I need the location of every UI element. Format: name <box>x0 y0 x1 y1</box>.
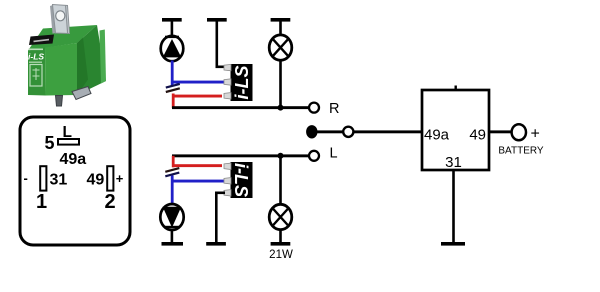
svg-text:49: 49 <box>87 172 105 189</box>
svg-text:R: R <box>329 101 339 117</box>
svg-text:i-LS: i-LS <box>28 52 44 62</box>
flasher box 2 <box>231 162 253 198</box>
relay right face edge highlight <box>100 30 107 84</box>
indicator arrow lamp down <box>160 204 183 230</box>
svg-text:49: 49 <box>469 127 486 144</box>
bus R wire <box>172 106 309 109</box>
flasher box 1 pin bottom <box>224 93 231 99</box>
blue wire switch 1 to flasher box 1 <box>172 81 224 84</box>
svg-text:21W: 21W <box>269 249 293 261</box>
flasher box 1 pin top <box>224 64 231 70</box>
red wire switch 1 to flasher box 1 <box>172 95 222 98</box>
ground bar D (bottom left) <box>162 242 184 246</box>
relay prong right <box>72 87 91 100</box>
wire node to connector circle <box>317 130 344 133</box>
svg-text:31: 31 <box>50 172 68 189</box>
relay front tiny text row 2 <box>29 62 42 63</box>
switch 2 contact blade upper <box>165 168 179 172</box>
relay right face <box>77 25 106 95</box>
wire relay 31 to ground G <box>452 170 455 243</box>
red wire switch 2 to flasher box 2 <box>172 164 222 167</box>
flasher box 1 pin middle <box>224 79 231 85</box>
relay right face near shade <box>77 38 88 96</box>
svg-text:2: 2 <box>105 191 116 213</box>
relay box top tick <box>455 86 457 91</box>
flasher box 2 pin middle <box>224 178 231 184</box>
bracket plate <box>53 5 70 34</box>
svg-text:-: - <box>24 171 28 186</box>
wire lamp L to ground F <box>279 230 282 243</box>
relay front-left face <box>28 48 46 96</box>
switch 1 contact blade lower <box>166 88 180 92</box>
pin 49 blade symbol <box>107 166 113 190</box>
flasher box 1 <box>231 64 253 101</box>
svg-text:+: + <box>116 171 124 186</box>
ground bar F (below lamp L) <box>271 242 291 246</box>
red wire bus L down to switch 2 <box>172 156 175 168</box>
wire flasher box 2 jog to ground E <box>215 192 225 195</box>
lamp L (front left indicator 21W) <box>269 204 292 229</box>
relay prong left <box>56 96 63 107</box>
wire ground E down <box>215 192 218 243</box>
pin 31 blade symbol <box>40 166 46 190</box>
svg-text:L: L <box>330 146 338 162</box>
pinout box <box>20 117 130 245</box>
bracket fold line <box>66 6 68 34</box>
svg-text:49a: 49a <box>60 151 87 168</box>
wire lamp R to bus R <box>279 60 282 109</box>
svg-text:49a: 49a <box>424 127 450 144</box>
switch 2 contact blade lower <box>165 173 179 177</box>
ground bar B (top middle) <box>207 18 227 22</box>
relay front square marking <box>30 65 42 87</box>
svg-text:31: 31 <box>445 154 462 171</box>
svg-text:i-LS: i-LS <box>231 163 251 197</box>
red wire switch 1 down to bus R <box>172 94 175 109</box>
bracket back sliver <box>50 5 57 34</box>
svg-text:BATTERY: BATTERY <box>498 146 544 157</box>
relay front tiny text row <box>29 49 44 51</box>
blue wire arrow lamp to switch 1 <box>171 61 174 87</box>
blue wire switch 2 to flasher box 2 <box>172 180 224 183</box>
indicator arrow lamp up <box>161 36 184 61</box>
wire relay 49 to battery <box>489 130 511 133</box>
switch 1 contact blade upper <box>166 84 180 88</box>
lamp R (front right indicator) <box>269 35 292 60</box>
flasher box 2 pin bottom <box>224 190 231 196</box>
blue wire switch 2 down to arrow lamp down <box>171 176 174 206</box>
bus L wire <box>172 154 309 157</box>
terminal R <box>309 103 319 113</box>
flasher box 2 pin top <box>224 163 231 169</box>
wire ground C to lamp R <box>279 21 282 36</box>
svg-text:5: 5 <box>45 133 55 153</box>
relay top face <box>28 25 97 51</box>
svg-text:i-LS: i-LS <box>232 66 252 100</box>
relay top label band <box>29 35 54 46</box>
wire ground B down <box>216 21 219 67</box>
flasher relay box <box>422 86 489 172</box>
ground bar G (below relay box) <box>441 242 465 246</box>
svg-text:1: 1 <box>36 191 47 213</box>
svg-text:+: + <box>531 126 540 143</box>
relay front-right face highlight <box>45 43 77 96</box>
wire arrow lamp down to ground D <box>171 230 174 243</box>
connector circle <box>343 127 353 137</box>
pin 5 blade symbol <box>58 139 79 145</box>
battery terminal circle <box>512 124 526 140</box>
junction dot bus R / lamp R <box>278 105 284 111</box>
switch common node dot <box>306 125 317 138</box>
wire bus L to lamp L <box>279 157 282 205</box>
wire connector to relay 49a <box>354 130 422 133</box>
relay photo <box>28 5 106 107</box>
ground bar C (above lamp R) <box>271 18 291 22</box>
svg-text:L: L <box>63 124 72 141</box>
ground bar A (above left arrow lamp) <box>162 18 182 22</box>
terminal L <box>309 151 319 161</box>
bracket hole <box>56 11 65 21</box>
wire ground A to arrow lamp <box>171 21 174 38</box>
ground bar E (bottom middle) <box>206 242 226 246</box>
junction dot bus L / lamp L <box>278 153 284 159</box>
wire ground B jog to flasher box 1 <box>216 66 226 69</box>
